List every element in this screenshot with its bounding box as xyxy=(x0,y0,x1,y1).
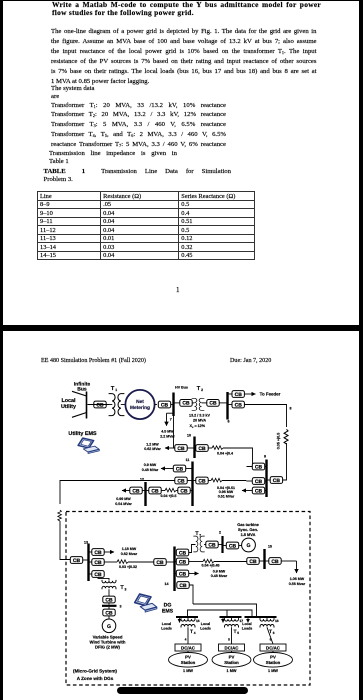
svg-text:0.05 +j0.5: 0.05 +j0.5 xyxy=(277,433,281,450)
svg-text:3: 3 xyxy=(120,604,122,608)
svg-text:0.99 MW: 0.99 MW xyxy=(116,497,131,501)
svg-text:Bus: Bus xyxy=(77,386,87,392)
svg-text:(Micro-Grid System): (Micro-Grid System) xyxy=(73,669,117,674)
svg-text:Metering: Metering xyxy=(130,405,150,411)
svg-text:0.04 +j0.45: 0.04 +j0.45 xyxy=(201,563,219,567)
svg-text:14: 14 xyxy=(165,582,169,586)
svg-text:6: 6 xyxy=(228,420,230,424)
svg-text:1 MW: 1 MW xyxy=(227,669,237,673)
svg-text:Loads: Loads xyxy=(242,626,253,630)
svg-text:0.56 Mvar: 0.56 Mvar xyxy=(289,582,306,586)
svg-text:5: 5 xyxy=(228,638,230,642)
svg-text:HV Bus: HV Bus xyxy=(175,386,188,390)
svg-text:PV: PV xyxy=(185,655,191,660)
svg-text:11: 11 xyxy=(186,458,190,462)
svg-text:7: 7 xyxy=(199,534,201,538)
svg-text:7: 7 xyxy=(170,418,172,422)
svg-text:4: 4 xyxy=(194,631,196,635)
svg-text:0.62 MVar: 0.62 MVar xyxy=(144,447,161,451)
svg-text:Utility EMS: Utility EMS xyxy=(68,431,97,437)
svg-text:2: 2 xyxy=(201,388,203,392)
svg-text:12: 12 xyxy=(140,478,144,482)
svg-text:0.51 MVar: 0.51 MVar xyxy=(218,495,235,499)
svg-text:G: G xyxy=(246,543,250,549)
svg-text:Station: Station xyxy=(266,660,281,665)
svg-text:DC/AC: DC/AC xyxy=(266,646,281,651)
svg-text:DFIG (2 MW): DFIG (2 MW) xyxy=(95,645,120,650)
svg-text:DC/AC: DC/AC xyxy=(225,646,240,651)
svg-text:16: 16 xyxy=(196,619,200,623)
svg-text:0.04 +j0.5: 0.04 +j0.5 xyxy=(160,494,176,498)
svg-text:Station: Station xyxy=(181,660,196,665)
svg-text:2: 2 xyxy=(219,531,221,535)
svg-text:18: 18 xyxy=(275,619,279,623)
svg-text:0.96 MW: 0.96 MW xyxy=(219,490,234,494)
svg-text:0.03 +j0.32: 0.03 +j0.32 xyxy=(119,565,137,569)
svg-text:6: 6 xyxy=(273,631,275,635)
svg-text:10: 10 xyxy=(187,434,191,438)
svg-text:EMS: EMS xyxy=(162,609,174,615)
svg-text:13: 13 xyxy=(84,541,88,545)
svg-text:Utility: Utility xyxy=(61,404,76,410)
svg-text:PV: PV xyxy=(229,655,235,660)
svg-text:0.04 +j0.4: 0.04 +j0.4 xyxy=(217,451,233,455)
svg-text:6: 6 xyxy=(270,638,272,642)
svg-text:PV: PV xyxy=(270,655,276,660)
svg-text:1.18 MW: 1.18 MW xyxy=(122,547,137,551)
svg-text:20 MVA: 20 MVA xyxy=(193,418,206,422)
svg-text:DC/AC: DC/AC xyxy=(181,646,196,651)
svg-text:Local: Local xyxy=(242,622,251,626)
svg-text:Local: Local xyxy=(162,622,171,626)
svg-text:Loads: Loads xyxy=(161,626,172,630)
svg-text:4.5 MW: 4.5 MW xyxy=(161,429,174,433)
svg-text:T: T xyxy=(233,629,236,635)
svg-text:4: 4 xyxy=(185,638,187,642)
svg-text:13.2 / 3.3 kV: 13.2 / 3.3 kV xyxy=(189,413,210,417)
svg-text:1.06 MW: 1.06 MW xyxy=(290,577,305,581)
svg-text:0.62 Mvar: 0.62 Mvar xyxy=(121,552,138,556)
svg-text:A Zone with DGs: A Zone with DGs xyxy=(77,676,114,681)
svg-text:9: 9 xyxy=(264,455,266,459)
svg-text:To Feeder: To Feeder xyxy=(260,392,281,397)
svg-text:0.9 MW: 0.9 MW xyxy=(213,569,226,573)
svg-text:1: 1 xyxy=(115,388,117,392)
svg-text:Local: Local xyxy=(61,398,76,404)
svg-text:1.8 MVA: 1.8 MVA xyxy=(241,532,256,537)
svg-text:T: T xyxy=(190,629,193,635)
svg-text:Loads: Loads xyxy=(200,626,211,630)
svg-text:Station: Station xyxy=(224,660,239,665)
svg-text:0.48 MVar: 0.48 MVar xyxy=(142,468,159,472)
svg-text:1 MW: 1 MW xyxy=(268,669,278,673)
svg-text:15: 15 xyxy=(268,545,272,549)
svg-text:0.9 MW: 0.9 MW xyxy=(144,463,157,467)
svg-text:3: 3 xyxy=(124,587,126,591)
svg-text:8: 8 xyxy=(290,407,292,411)
svg-text:1 MW: 1 MW xyxy=(183,669,193,673)
svg-text:0.54 MVar: 0.54 MVar xyxy=(115,502,132,506)
svg-text:Local: Local xyxy=(201,622,210,626)
svg-text:Xc = 12%: Xc = 12% xyxy=(190,424,206,429)
svg-text:Net: Net xyxy=(136,399,144,405)
svg-text:0.48 Mvar: 0.48 Mvar xyxy=(211,574,228,578)
svg-text:5: 5 xyxy=(237,631,239,635)
svg-text:G: G xyxy=(107,624,111,630)
svg-text:1.2 MW: 1.2 MW xyxy=(146,443,159,447)
